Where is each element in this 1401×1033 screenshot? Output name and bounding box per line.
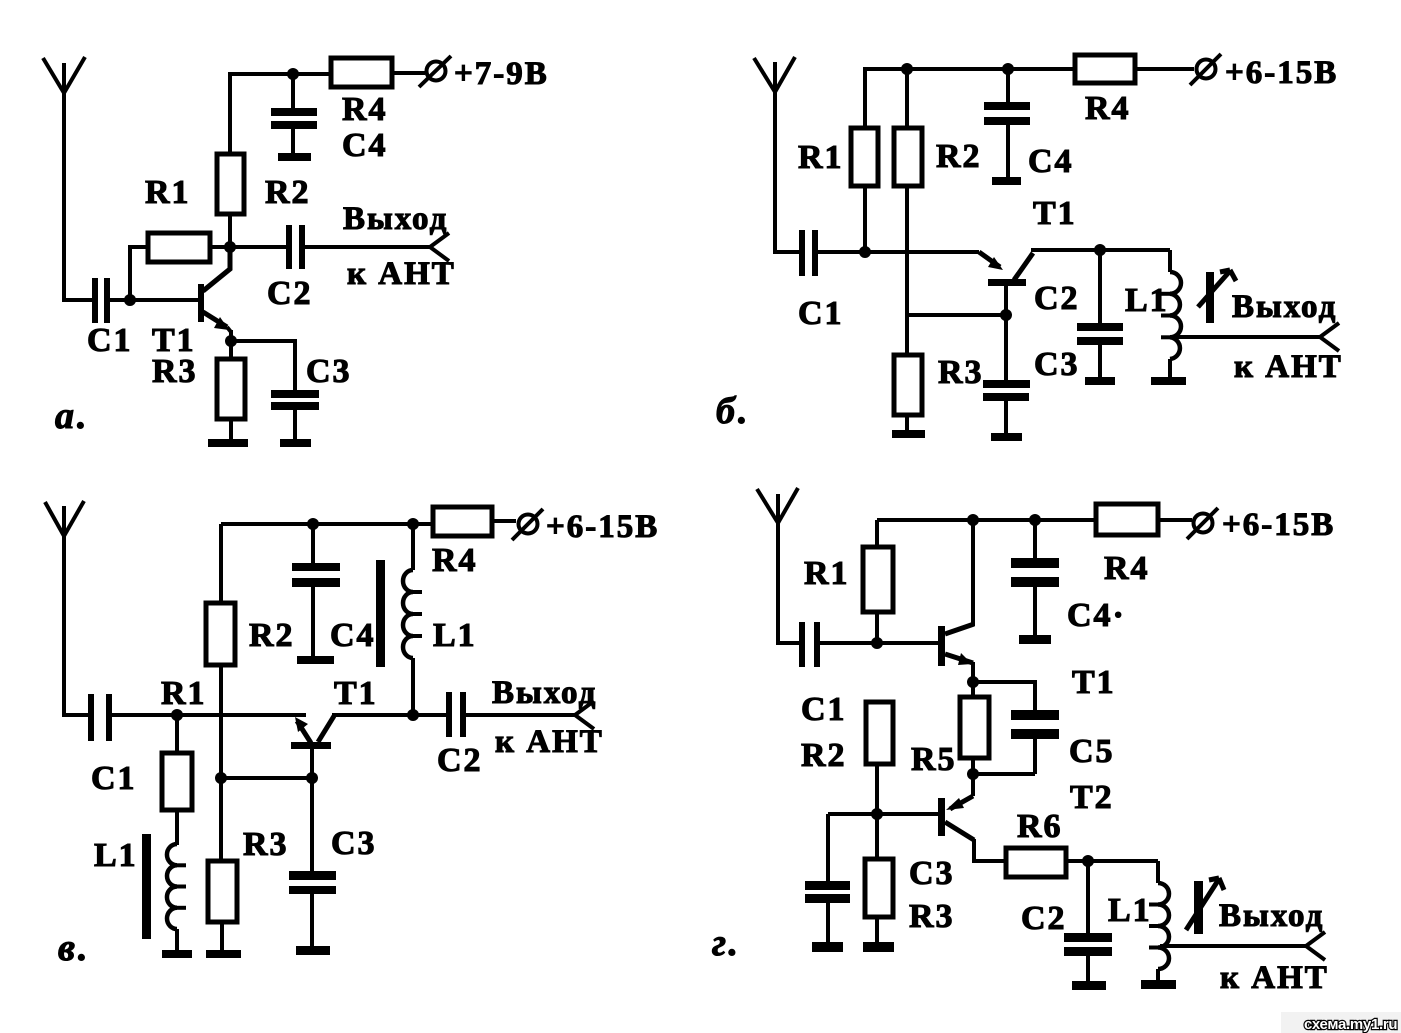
svg-text:R6: R6	[1017, 808, 1063, 845]
node emitter junction	[967, 676, 979, 688]
transistor T1 collector	[1014, 253, 1033, 280]
output arrow (k ANT)	[430, 233, 449, 261]
antenna WA1 (circuit a)	[43, 57, 85, 300]
svg-text:R4: R4	[1085, 90, 1131, 127]
wire top rail	[228, 72, 331, 76]
svg-text:R4: R4	[432, 542, 478, 579]
wire junction to base	[221, 776, 312, 780]
output arrow (k ANT)	[575, 701, 594, 729]
ground (C3)	[812, 942, 843, 952]
wire R1 bottom	[863, 186, 867, 252]
wire R1 top to rail	[865, 69, 1075, 128]
svg-text:к АНТ: к АНТ	[347, 256, 456, 292]
svg-text:T1: T1	[1033, 195, 1077, 232]
capacitor C4	[292, 524, 340, 657]
resistor R1	[162, 715, 192, 845]
resistor R1	[851, 128, 878, 186]
svg-text:C3: C3	[331, 825, 377, 862]
wire L1 tap to output	[1172, 335, 1320, 339]
svg-text:R5: R5	[911, 741, 957, 778]
svg-text:схема.my1.ru: схема.my1.ru	[1304, 1016, 1397, 1033]
svg-text:L1: L1	[433, 617, 477, 654]
wire junction up to R1	[130, 247, 148, 300]
wire R2 top	[219, 524, 223, 603]
svg-text:C3: C3	[306, 353, 352, 390]
power terminal +6-15V	[1187, 508, 1218, 539]
wire R2 bottom to base node	[219, 665, 223, 778]
svg-text:R4: R4	[1104, 550, 1150, 587]
wire collector rail	[1031, 248, 1170, 252]
ground (C3)	[991, 433, 1022, 441]
capacitor C4	[984, 69, 1030, 178]
wire R3 to ground	[229, 419, 233, 440]
node R1 junction	[871, 637, 883, 649]
wire C3 to ground	[293, 410, 297, 440]
wire emitter to C5	[973, 682, 1035, 710]
resistor R1	[148, 233, 210, 262]
svg-text:C3: C3	[909, 855, 955, 892]
wire base to R3 node	[907, 313, 1006, 317]
node R5 bottom junction	[967, 768, 979, 780]
svg-text:C4: C4	[342, 127, 388, 164]
wire R4 to power	[1158, 518, 1192, 522]
wire emitter to C3	[231, 341, 295, 390]
transistor T2 base bar	[938, 798, 945, 836]
antenna WA1 (circuit b)	[754, 57, 795, 252]
svg-text:Выход: Выход	[343, 201, 448, 237]
svg-text:R1: R1	[798, 139, 844, 176]
svg-text:к АНТ: к АНТ	[1220, 960, 1329, 996]
transistor T1 collector	[945, 520, 974, 634]
node L1 top junction	[407, 518, 419, 530]
node R2 top junction	[901, 63, 913, 75]
wire collector to C2	[332, 713, 446, 717]
svg-text:R2: R2	[936, 138, 982, 175]
node emitter junction	[225, 335, 237, 347]
wire R4 to power	[492, 519, 516, 523]
transistor T1 emitter	[203, 312, 231, 332]
capacitor C2	[446, 692, 466, 737]
svg-text:R3: R3	[909, 898, 955, 935]
wire emitter down	[971, 662, 975, 697]
wire R2 top	[228, 74, 232, 154]
ground (C2)	[1085, 377, 1115, 385]
capacitor C3	[983, 380, 1030, 434]
ground (R3)	[892, 430, 925, 438]
svg-text:б.: б.	[716, 390, 750, 432]
resistor R4	[1096, 504, 1158, 535]
transistor T1 collector	[318, 716, 334, 742]
power terminal +6-15V	[512, 509, 543, 540]
svg-text:+6-15В: +6-15В	[1225, 55, 1338, 91]
core bar (L1 upper)	[376, 560, 385, 667]
wire antenna to C1	[776, 641, 799, 645]
svg-text:C1: C1	[798, 295, 844, 332]
ground (C2)	[1072, 981, 1106, 990]
node C4 top junction	[307, 518, 319, 530]
wire R2 bottom	[228, 214, 232, 247]
svg-text:+7-9В: +7-9В	[454, 56, 549, 92]
antenna WA1 (circuit v)	[45, 501, 84, 715]
capacitor C3	[289, 871, 336, 947]
transistor T2 emitter	[946, 796, 973, 810]
svg-text:T1: T1	[334, 675, 378, 712]
wire C2 to output	[466, 713, 575, 717]
svg-text:C1: C1	[91, 760, 137, 797]
svg-text:L1: L1	[1108, 892, 1152, 929]
capacitor C3	[805, 814, 850, 943]
wire R4 to power	[1135, 67, 1194, 71]
resistor R3	[208, 778, 237, 951]
svg-text:C4: C4	[330, 617, 376, 654]
node collector junction	[967, 514, 979, 526]
svg-text:к АНТ: к АНТ	[1234, 349, 1343, 385]
transistor T1 base bar	[938, 626, 945, 666]
wire C4 stem	[291, 74, 295, 108]
ground (L1)	[162, 950, 192, 958]
wire base down	[1004, 286, 1008, 380]
wire R6 to L1	[1066, 859, 1158, 863]
node collector junction	[224, 241, 236, 253]
svg-text:C2: C2	[437, 742, 483, 779]
svg-text:г.: г.	[712, 922, 741, 964]
output arrow (k ANT)	[1306, 932, 1325, 960]
capacitor C1	[88, 694, 112, 741]
wire C1 to emitter	[818, 250, 979, 254]
resistor R6	[1006, 848, 1066, 877]
wire base down	[310, 749, 314, 871]
transistor T1 base bar	[198, 284, 204, 322]
wire top rail	[877, 518, 1096, 522]
inductor L1	[1149, 861, 1169, 981]
variable core arrow	[1186, 878, 1224, 934]
ground (R3)	[863, 942, 894, 952]
capacitor C4	[1011, 520, 1059, 636]
inductor L1 (lower)	[167, 844, 186, 951]
svg-text:R3: R3	[938, 354, 984, 391]
capacitor C2	[1064, 861, 1112, 982]
ground (C4)	[297, 656, 334, 664]
capacitor C5	[1011, 710, 1059, 774]
svg-text:к АНТ: к АНТ	[495, 724, 604, 760]
svg-text:C4: C4	[1028, 143, 1074, 180]
capacitor C1	[799, 230, 818, 276]
svg-text:R1: R1	[804, 555, 850, 592]
svg-text:R3: R3	[152, 353, 198, 390]
ground (R3)	[208, 439, 248, 447]
core bar (L1 lower)	[142, 834, 151, 939]
svg-text:R3: R3	[243, 826, 289, 863]
svg-text:C4·: C4·	[1067, 597, 1126, 634]
node C4 junction	[1029, 514, 1041, 526]
transistor T1 base bar	[988, 279, 1026, 286]
wire antenna to C1	[773, 250, 799, 254]
resistor R4	[1075, 55, 1135, 83]
ground (R3)	[206, 950, 241, 958]
node R2/R3 junction	[215, 772, 227, 784]
svg-text:T2: T2	[1070, 779, 1114, 816]
ground (L1)	[1151, 377, 1186, 385]
svg-text:R4: R4	[342, 91, 388, 128]
resistor R3	[217, 359, 245, 419]
svg-text:C5: C5	[1069, 733, 1115, 770]
wire collector to C2	[230, 245, 286, 249]
transistor T2 collector	[945, 822, 1006, 861]
resistor R1	[863, 520, 893, 643]
svg-text:C1: C1	[87, 322, 133, 359]
output arrow (k ANT)	[1320, 323, 1339, 351]
ground (C4)	[992, 177, 1021, 185]
wire top rail	[221, 522, 433, 526]
ground (C4)	[1019, 635, 1051, 644]
resistor R4	[433, 507, 492, 536]
resistor R3	[894, 315, 922, 431]
capacitor C1	[92, 278, 110, 323]
wire antenna to C1	[62, 298, 92, 302]
svg-text:L1: L1	[94, 837, 138, 874]
wire C2 to output	[305, 245, 430, 249]
antenna WA1 (circuit g)	[757, 488, 798, 643]
wire R2 bottom	[875, 764, 879, 814]
svg-text:C3: C3	[1034, 346, 1080, 383]
capacitor C1	[799, 622, 820, 667]
svg-text:R2: R2	[249, 617, 295, 654]
svg-text:R2: R2	[801, 737, 847, 774]
resistor R4	[331, 58, 392, 87]
transistor T1 emitter	[295, 717, 311, 743]
svg-text:Выход: Выход	[1219, 898, 1324, 934]
watermark	[1281, 1012, 1401, 1033]
svg-text:Выход: Выход	[1232, 289, 1337, 325]
wire C5 bottom to R5 node	[973, 772, 1035, 776]
wire C1 to emitter	[112, 713, 306, 717]
svg-text:в.: в.	[58, 927, 90, 969]
inductor L1	[1161, 250, 1181, 378]
svg-text:C2: C2	[1034, 280, 1080, 317]
svg-text:L1: L1	[1125, 282, 1169, 319]
node base junction	[306, 772, 318, 784]
svg-text:T1: T1	[1072, 664, 1116, 701]
wire C1 to base T1	[820, 641, 938, 645]
wire C1 to base	[110, 298, 199, 302]
inductor L1 (upper)	[403, 524, 422, 715]
node base junction	[1000, 309, 1012, 321]
wire R1 to collector node	[210, 245, 230, 249]
node C2 junction	[1082, 855, 1094, 867]
ground (C4)	[278, 153, 311, 161]
capacitor C2	[1077, 250, 1123, 378]
transistor T1 base bar	[291, 742, 331, 749]
capacitor C4	[271, 108, 317, 129]
wire base T2	[828, 812, 938, 816]
node C4 top junction	[1002, 63, 1014, 75]
resistor R5	[960, 697, 989, 796]
svg-text:+6-15В: +6-15В	[1222, 507, 1335, 543]
transistor T1 emitter	[945, 653, 973, 665]
transistor T1 emitter	[979, 252, 1003, 270]
capacitor C2	[286, 225, 305, 269]
ground (L1)	[1141, 980, 1176, 989]
wire antenna to C1	[62, 713, 88, 717]
resistor R3	[865, 814, 893, 943]
resistor R2	[866, 702, 893, 764]
power terminal +6-15V	[1190, 54, 1221, 85]
wire R2 top	[905, 69, 909, 128]
svg-text:R1: R1	[161, 675, 207, 712]
svg-text:C2: C2	[1021, 900, 1067, 937]
power terminal +7-9V	[419, 56, 451, 87]
transistor T1 collector	[203, 248, 230, 291]
wire C4 to ground	[291, 129, 295, 154]
svg-text:+6-15В: +6-15В	[546, 509, 659, 545]
svg-text:а.: а.	[55, 395, 90, 437]
node R1 junction	[859, 246, 871, 258]
node base junction	[124, 294, 136, 306]
ground (C3)	[280, 439, 311, 447]
svg-text:C2: C2	[267, 275, 313, 312]
node C4 junction	[287, 68, 299, 80]
svg-text:R1: R1	[145, 174, 191, 211]
node L1 bottom junction	[407, 709, 419, 721]
node C2 junction	[1094, 244, 1106, 256]
resistor R2	[894, 128, 922, 186]
svg-text:C1: C1	[801, 691, 847, 728]
capacitor C3	[271, 390, 319, 410]
node R1 junction	[171, 709, 183, 721]
resistor R2	[206, 603, 235, 665]
ground (C3)	[296, 946, 330, 955]
resistor R2	[217, 154, 244, 214]
wire emitter down	[229, 330, 233, 359]
wire R4 to power	[392, 71, 425, 75]
svg-text:Выход: Выход	[492, 675, 597, 711]
node R2/R3 junction	[871, 808, 883, 820]
svg-text:R2: R2	[265, 174, 311, 211]
wire R2 bottom to base node	[905, 186, 909, 315]
variable core arrow	[1198, 270, 1236, 323]
wire L1 tap to output	[1160, 944, 1306, 948]
